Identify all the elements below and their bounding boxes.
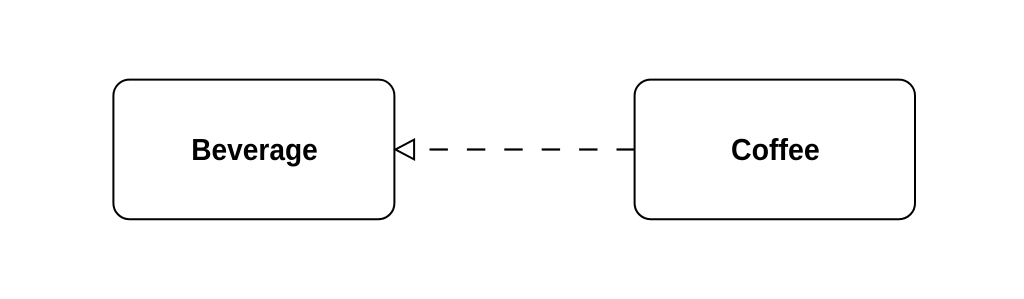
class box Coffee xyxy=(635,80,915,220)
class box Beverage xyxy=(113,80,394,220)
realization arrowhead (hollow triangle) xyxy=(395,140,414,160)
svg-text:Coffee: Coffee xyxy=(731,132,820,167)
svg-text:Beverage: Beverage xyxy=(191,132,318,167)
dashed connector wire xyxy=(430,148,635,150)
